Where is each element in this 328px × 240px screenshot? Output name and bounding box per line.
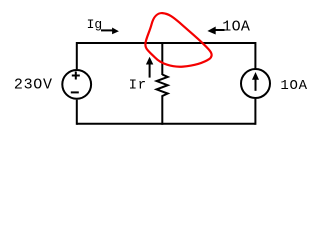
wire right branch (bottom segment) [254, 99, 256, 125]
annotation red loop around top node [145, 13, 211, 67]
wire left branch (bottom segment) [76, 100, 78, 125]
arrow Ir branch current (up) [146, 57, 153, 78]
svg-text:1OA: 1OA [280, 78, 307, 94]
wire top bus [77, 42, 256, 44]
current source I1 (circle) [241, 69, 270, 98]
svg-text:Ir: Ir [129, 78, 147, 94]
wire middle branch (top segment) [161, 42, 163, 75]
resistor R (zigzag) [157, 75, 168, 98]
wire left branch (top segment) [76, 42, 78, 69]
voltage source V1 plus sign [72, 72, 80, 80]
voltage source V1 (circle) [62, 70, 91, 99]
svg-text:1OA: 1OA [222, 18, 250, 35]
voltage source V1 minus sign [71, 91, 79, 93]
wire middle branch (bottom segment) [161, 97, 163, 125]
wire bottom bus [77, 123, 256, 125]
wire right branch (top segment) [254, 42, 256, 69]
arrow Ig (rightward) [101, 28, 119, 35]
svg-text:23OV: 23OV [14, 77, 53, 94]
svg-text:Ig: Ig [87, 17, 103, 32]
current source I1 arrow (up) [252, 72, 259, 91]
arrow 10A top (leftward) [207, 27, 224, 35]
